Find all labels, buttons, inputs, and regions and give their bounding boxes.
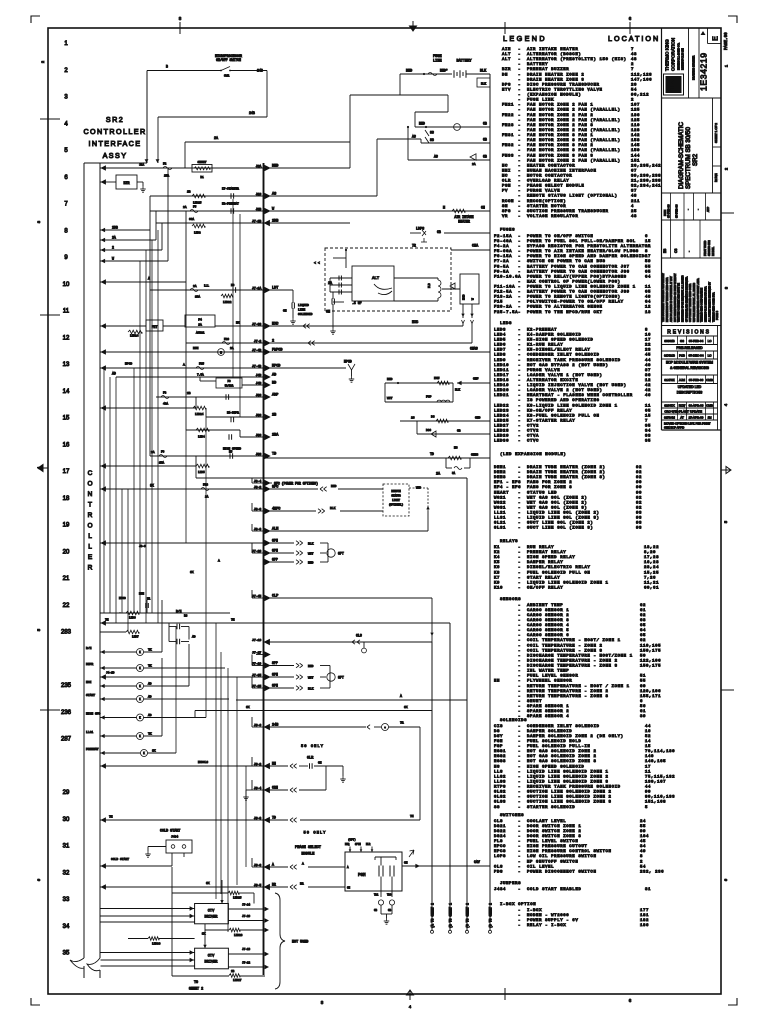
svg-text:60: 60 <box>640 685 646 689</box>
svg-text:90: 90 <box>636 486 642 490</box>
svg-text:-: - <box>518 629 520 633</box>
svg-text:LED7: LED7 <box>132 636 139 639</box>
svg-text:(D TO SHEET 2: (D TO SHEET 2 <box>489 903 493 928</box>
svg-text:LED5: LED5 <box>198 471 205 474</box>
svg-text:F25-7.5A: F25-7.5A <box>494 311 518 315</box>
svg-text:J8-8: J8-8 <box>254 527 262 531</box>
svg-text:NOT BE REPRODUCED OR USED WITH: NOT BE REPRODUCED OR USED WITHOUT <box>675 273 677 322</box>
svg-text:92: 92 <box>636 501 642 505</box>
svg-text:232, 236: 232, 236 <box>640 870 664 874</box>
svg-text:46: 46 <box>645 394 651 398</box>
svg-text:SHUNT: SHUNT <box>197 161 206 164</box>
svg-text:LED28: LED28 <box>494 430 509 434</box>
svg-text:-: - <box>518 53 520 57</box>
svg-text:M: M <box>443 207 445 211</box>
svg-text:B: B <box>166 65 168 69</box>
svg-text:CARGO SENSOR 4: CARGO SENSOR 4 <box>527 624 569 628</box>
svg-text:J7-48: J7-48 <box>252 364 261 368</box>
svg-text:13,22: 13,22 <box>644 546 659 550</box>
svg-text:-: - <box>518 369 520 373</box>
svg-text:-: - <box>518 586 520 590</box>
svg-text:15: 15 <box>645 240 651 244</box>
svg-text:LLS2: LLS2 <box>494 775 506 779</box>
svg-text:J7-35: J7-35 <box>252 673 261 677</box>
svg-text:MP SHUTOFF SWITCH: MP SHUTOFF SWITCH <box>527 860 578 864</box>
svg-text:43: 43 <box>631 53 637 57</box>
svg-text:-: - <box>518 665 520 669</box>
svg-text:HIGH PRESSURE CUTOUT: HIGH PRESSURE CUTOUT <box>527 845 587 849</box>
svg-text:-: - <box>518 860 520 864</box>
svg-text:(OPTIONAL): (OPTIONAL) <box>389 504 404 507</box>
svg-text:-: - <box>518 286 520 290</box>
svg-text:11: 11 <box>63 309 70 315</box>
svg-text:EXC: EXC <box>412 321 418 325</box>
svg-text:07-FEB-06: 07-FEB-06 <box>675 204 679 218</box>
svg-text:-: - <box>518 835 520 839</box>
svg-text:BLK: BLK <box>308 688 314 691</box>
svg-text:LED29: LED29 <box>494 435 509 439</box>
svg-text:PURGE VALVE: PURGE VALVE <box>527 369 560 373</box>
svg-text:2: 2 <box>631 99 634 103</box>
svg-text:F9-5A: F9-5A <box>494 270 509 274</box>
svg-text:FANS FOR ZONE 2: FANS FOR ZONE 2 <box>527 481 572 485</box>
svg-text:J7-45: J7-45 <box>252 594 261 598</box>
svg-text:D/E: D/E <box>176 609 182 613</box>
svg-text:FANS FOR ZONE 3: FANS FOR ZONE 3 <box>527 486 572 490</box>
svg-text:24B: 24B <box>249 111 255 115</box>
svg-text:65: 65 <box>645 270 651 274</box>
svg-text:FET: FET <box>152 325 158 329</box>
svg-text:44: 44 <box>645 359 651 363</box>
svg-text:-: - <box>518 68 520 72</box>
svg-text:-: - <box>518 924 520 928</box>
svg-text:11: 11 <box>645 770 651 774</box>
svg-text:-: - <box>518 644 520 648</box>
svg-text:-: - <box>518 501 520 505</box>
svg-text:CARGO SENSOR 1: CARGO SENSOR 1 <box>527 609 569 613</box>
svg-text:K1-RUN RELAY: K1-RUN RELAY <box>527 344 563 348</box>
svg-text:AMBIENT TEMP: AMBIENT TEMP <box>527 604 563 608</box>
svg-text:-: - <box>518 576 520 580</box>
svg-text:LLS: LLS <box>494 770 503 774</box>
svg-text:COLD START ENABLED: COLD START ENABLED <box>527 888 581 892</box>
svg-text:LIQUID INJECTION VALVE (NOT US: LIQUID INJECTION VALVE (NOT USED) <box>527 383 627 388</box>
svg-text:44: 44 <box>645 725 651 729</box>
svg-text:-: - <box>518 556 520 560</box>
svg-text:INFORMATION OF THERMO KING COR: INFORMATION OF THERMO KING CORP. <box>666 277 669 322</box>
svg-text:7E: 7E <box>410 815 414 818</box>
svg-text:SR2: SR2 <box>692 153 699 166</box>
svg-text:WET GAS SOL (ZONE 3): WET GAS SOL (ZONE 3) <box>527 505 587 510</box>
svg-text:283: 283 <box>61 630 72 636</box>
svg-text:LLS1: LLS1 <box>86 731 93 734</box>
svg-text:-: - <box>518 527 520 531</box>
svg-text:AND IS LOANED IN CONFIDENCE. I: AND IS LOANED IN CONFIDENCE. IT MAY <box>670 276 673 322</box>
svg-text:150: 150 <box>631 149 640 153</box>
svg-text:-: - <box>518 333 520 337</box>
svg-text:FUSE LINK: FUSE LINK <box>527 99 554 103</box>
svg-text:PRE-RELEASED: PRE-RELEASED <box>676 346 703 350</box>
svg-text:J6-3: J6-3 <box>254 863 262 867</box>
svg-text:A: A <box>272 863 274 867</box>
svg-text:59: 59 <box>645 260 651 264</box>
svg-text:-: - <box>518 349 520 353</box>
svg-text:LOPS: LOPS <box>494 855 506 859</box>
svg-text:FM32: FM32 <box>502 144 514 148</box>
svg-text:INL WATER TEMP: INL WATER TEMP <box>527 670 569 674</box>
svg-text:UNPUBLISHED WORK. ALL RIGHTS: UNPUBLISHED WORK. ALL RIGHTS <box>693 282 696 322</box>
svg-text:(A TO SHEET 2: (A TO SHEET 2 <box>431 903 435 928</box>
svg-text:F13-2A: F13-2A <box>494 296 512 300</box>
svg-text:AD: AD <box>112 372 116 376</box>
svg-text:2A: 2A <box>472 163 476 166</box>
svg-text:LIQUID LINE SOL (ZONE 3): LIQUID LINE SOL (ZONE 3) <box>527 516 600 521</box>
svg-text:122,106: 122,106 <box>640 659 661 663</box>
svg-text:LIQUID: LIQUID <box>298 304 309 307</box>
svg-text:CARGO SENSOR 5: CARGO SENSOR 5 <box>527 629 569 633</box>
svg-text:CONTROLLER: CONTROLLER <box>83 127 146 136</box>
svg-text:FAN MOTOR ZONE 3 FAN 1: FAN MOTOR ZONE 3 FAN 1 <box>527 134 593 138</box>
svg-text:211: 211 <box>631 200 640 204</box>
svg-text:J6-6: J6-6 <box>254 723 262 727</box>
svg-text:48: 48 <box>631 58 637 62</box>
svg-text:LED17: LED17 <box>494 374 509 378</box>
svg-text:-: - <box>518 685 520 689</box>
svg-text:LOADER VALVE 1 (NOT USED): LOADER VALVE 1 (NOT USED) <box>527 373 603 378</box>
svg-text:144: 144 <box>631 154 640 158</box>
svg-text:29: 29 <box>63 790 70 796</box>
svg-text:30: 30 <box>63 817 70 823</box>
svg-text:COIL TEMPERATURE - ZONE: COIL TEMPERATURE - ZONE 3 <box>527 649 603 653</box>
svg-text:< <: < < <box>314 261 320 265</box>
svg-text:RESERVED UNDER COPYRIGHT LAWS.: RESERVED UNDER COPYRIGHT LAWS. <box>697 278 700 322</box>
svg-text:63: 63 <box>640 619 646 623</box>
svg-text:ALT: ALT <box>372 277 380 281</box>
svg-text:OPT: OPT <box>338 552 344 556</box>
svg-text:CH: CH <box>283 310 287 313</box>
svg-text:61: 61 <box>640 710 646 714</box>
svg-text:RED: RED <box>419 122 425 126</box>
svg-text:A: A <box>183 364 185 367</box>
svg-text:HMI: HMI <box>502 169 511 173</box>
svg-text:(LED EXPANSION MODULE): (LED EXPANSION MODULE) <box>500 452 566 457</box>
svg-text:CH: CH <box>318 762 322 765</box>
svg-text:OLS: OLS <box>494 865 503 869</box>
svg-text:POWER TO ON/OFF SWITCH: POWER TO ON/OFF SWITCH <box>527 234 593 239</box>
svg-text:SUCT LINE SOL (ZONE 2): SUCT LINE SOL (ZONE 2) <box>527 521 593 526</box>
svg-text:F25: F25 <box>199 363 204 366</box>
svg-text:J7-2: J7-2 <box>254 339 262 343</box>
svg-text:BZR: BZR <box>502 68 511 72</box>
svg-text:HIGH SPD: HIGH SPD <box>86 713 101 716</box>
svg-text:WG22: WG22 <box>494 501 506 505</box>
svg-text:FORM 8: FORM 8 <box>716 310 719 320</box>
svg-text:FAN MOTOR ZONE 3 FAN (PARAL: FAN MOTOR ZONE 3 FAN (PARALLEL) <box>527 148 621 153</box>
svg-text:STARTER SOLENOID: STARTER SOLENOID <box>527 806 575 810</box>
svg-text:TB1: TB1 <box>374 894 379 897</box>
svg-text:ON/OFF SWITCH: ON/OFF SWITCH <box>216 58 241 62</box>
svg-text:-: - <box>518 419 520 423</box>
svg-text:PV: PV <box>502 190 508 194</box>
svg-text:ES: ES <box>663 249 667 253</box>
svg-text:POWER TO RELAY(UPPER POS)BYPAS: POWER TO RELAY(UPPER POS)BYPASSES <box>527 274 627 279</box>
svg-text:125: 125 <box>631 119 640 123</box>
svg-text:92: 92 <box>636 506 642 510</box>
svg-text:COLD START: COLD START <box>111 858 129 861</box>
svg-text:AS: AS <box>412 135 416 139</box>
svg-text:40: 40 <box>645 364 651 368</box>
svg-text:E: E <box>713 36 720 41</box>
svg-text:LED25: LED25 <box>494 419 509 423</box>
svg-text:35: 35 <box>645 440 651 444</box>
svg-text:MODEL: MODEL <box>711 246 715 256</box>
svg-text:90: 90 <box>636 491 642 495</box>
svg-text:-: - <box>518 83 520 87</box>
svg-text:80,116,133: 80,116,133 <box>645 796 675 800</box>
svg-text:J2B: J2B <box>256 207 262 211</box>
svg-text:SHEET 1 OF 2: SHEET 1 OF 2 <box>714 123 718 143</box>
svg-text:J2A: J2A <box>256 164 262 168</box>
svg-text:DRIVER: DRIVER <box>205 961 219 965</box>
svg-text:RETURN TEMPERATURE - ZO: RETURN TEMPERATURE - ZONE 2 <box>527 690 609 694</box>
svg-text:33734M: 33734M <box>664 416 675 420</box>
svg-text:J7-33: J7-33 <box>252 322 261 326</box>
svg-text:177: 177 <box>640 909 649 913</box>
svg-text:CTV: CTV <box>208 910 215 914</box>
svg-text:TK: TK <box>669 81 676 89</box>
svg-text:-: - <box>518 175 520 179</box>
svg-text:-: - <box>518 210 520 214</box>
svg-text:75,115,132: 75,115,132 <box>645 775 675 779</box>
svg-text:POWER TO HIGH SPEED AND DAMPER: POWER TO HIGH SPEED AND DAMPER SOLENOIDS <box>527 255 648 259</box>
svg-text:RUN: RUN <box>193 347 199 350</box>
svg-text:F6-15A: F6-15A <box>494 255 512 259</box>
svg-text:37: 37 <box>645 369 651 373</box>
svg-text:AIH: AIH <box>502 48 511 52</box>
svg-text:DISCHARGE TEMPERATURE - Z: DISCHARGE TEMPERATURE - ZONE 2 <box>527 659 618 663</box>
svg-text:32007X: 32007X <box>664 404 674 408</box>
svg-text:-: - <box>518 909 520 913</box>
svg-text:8: 8 <box>640 855 643 859</box>
svg-text:I-BOX: I-BOX <box>527 909 542 913</box>
svg-text:55: 55 <box>640 680 646 684</box>
svg-text:DIESEL/ELECTRIC RELAY: DIESEL/ELECTRIC RELAY <box>527 565 590 570</box>
svg-text:RLW: RLW <box>679 404 686 408</box>
svg-text:90: 90 <box>636 481 642 485</box>
svg-text:-: - <box>518 124 520 128</box>
svg-text:-: - <box>518 825 520 829</box>
svg-text:CRH: CRH <box>272 786 278 790</box>
svg-text:8FC (POWER FOR OPTIONS): 8FC (POWER FOR OPTIONS) <box>274 482 318 486</box>
svg-text:11,21: 11,21 <box>644 581 659 585</box>
svg-text:LED23: LED23 <box>494 409 509 413</box>
svg-text:MS: MS <box>454 447 458 450</box>
svg-text:LIQUID LINE SOLENOID ZONE 1: LIQUID LINE SOLENOID ZONE 1 <box>527 581 609 585</box>
svg-text:15A: 15A <box>159 462 164 465</box>
svg-text:LINE: LINE <box>298 309 305 312</box>
svg-text:NLR: NLR <box>366 843 371 846</box>
svg-text:BATTERY POWER TO CAN CONNECTOR: BATTERY POWER TO CAN CONNECTOR J39 <box>527 291 630 295</box>
svg-text:-: - <box>518 99 520 103</box>
svg-text:J6-5: J6-5 <box>254 883 262 887</box>
svg-text:K2-PREHEAT: K2-PREHEAT <box>222 203 239 206</box>
svg-text:SEE ECP APPD: SEE ECP APPD <box>664 426 684 430</box>
svg-text:-: - <box>518 364 520 368</box>
svg-text:SW1: SW1 <box>224 75 230 78</box>
svg-text:2A: 2A <box>112 236 116 240</box>
svg-text:J8S: J8S <box>256 433 262 437</box>
svg-text:.5 uF: .5 uF <box>352 301 362 305</box>
svg-text:-: - <box>518 154 520 158</box>
svg-text:LIQUID LINE SOL (ZONE 2): LIQUID LINE SOL (ZONE 2) <box>527 511 600 516</box>
svg-text:287: 287 <box>61 737 72 743</box>
svg-text:START RELAY: START RELAY <box>527 576 560 580</box>
svg-text:J7-24: J7-24 <box>242 903 250 906</box>
svg-text:-: - <box>518 745 520 749</box>
svg-text:96,212: 96,212 <box>631 94 649 98</box>
svg-text:5A: 5A <box>452 472 456 475</box>
svg-text:CTV2: CTV2 <box>527 425 539 429</box>
svg-text:AD: AD <box>148 696 152 699</box>
svg-text:CB: CB <box>457 430 461 433</box>
svg-text:-: - <box>518 399 520 403</box>
svg-text:LOCATION: LOCATION <box>608 34 660 43</box>
svg-text:DISCHARGE TEMPERATURE - Z: DISCHARGE TEMPERATURE - ZONE 3 <box>527 665 618 669</box>
svg-text:J7-19: J7-19 <box>252 662 261 666</box>
svg-text:LED18: LED18 <box>494 379 509 383</box>
svg-text:BLK: BLK <box>455 389 460 392</box>
svg-text:SUCTION PRESSURE TRANSDUCER: SUCTION PRESSURE TRANSDUCER <box>527 210 609 214</box>
svg-text:-: - <box>518 659 520 663</box>
svg-text:-: - <box>518 134 520 138</box>
svg-text:LED7: LED7 <box>494 349 506 353</box>
svg-text:151,168: 151,168 <box>645 801 666 805</box>
svg-text:50: 50 <box>640 654 646 658</box>
svg-text:THERMO KING CORP. USA: THERMO KING CORP. USA <box>712 292 715 322</box>
svg-text:CMHS: CMHS <box>471 454 478 457</box>
svg-text:J8S: J8S <box>256 393 262 397</box>
svg-text:8X: 8X <box>206 882 210 885</box>
svg-text:J7-16: J7-16 <box>252 638 261 642</box>
svg-text:J434: J434 <box>494 888 506 892</box>
svg-text:CB: CB <box>483 138 487 142</box>
svg-text:DAMPER SOLENOID: DAMPER SOLENOID <box>527 730 572 734</box>
svg-text:93: 93 <box>636 527 642 531</box>
svg-text:STARTER MOTOR: STARTER MOTOR <box>527 205 566 209</box>
svg-text:-: - <box>518 865 520 869</box>
svg-text:PDS: PDS <box>494 870 503 874</box>
svg-text:ALTERNATOR EXCITE: ALTERNATOR EXCITE <box>527 379 578 383</box>
svg-text:LED19: LED19 <box>494 384 509 388</box>
svg-text:05-DEC-04: 05-DEC-04 <box>688 354 703 358</box>
svg-text:K1: K1 <box>494 546 500 550</box>
svg-text:R: R <box>88 565 93 572</box>
svg-text:16: 16 <box>63 442 70 448</box>
svg-text:REQ: REQ <box>345 843 350 846</box>
svg-text:CHA: CHA <box>472 245 479 249</box>
svg-text:J4S: J4S <box>256 381 262 385</box>
svg-text:-: - <box>518 755 520 759</box>
svg-text:11: 11 <box>645 404 651 408</box>
svg-text:-: - <box>518 195 520 199</box>
svg-text:DMPR: DMPR <box>86 663 93 666</box>
svg-text:FM23: FM23 <box>502 124 514 128</box>
svg-text:HOT GAS SOLENOID ZONE 2: HOT GAS SOLENOID ZONE 2 <box>527 755 596 759</box>
svg-text:J7-27: J7-27 <box>252 651 261 655</box>
svg-text:CH: CH <box>326 311 330 315</box>
svg-text:-: - <box>518 379 520 383</box>
svg-text:7,26: 7,26 <box>644 576 656 580</box>
svg-text:OVERLOAD RELAY: OVERLOAD RELAY <box>527 180 569 184</box>
svg-text:61: 61 <box>640 609 646 613</box>
svg-text:RELAYS: RELAYS <box>500 540 518 544</box>
svg-text:ECP MODULE WIRE SYSTEM: ECP MODULE WIRE SYSTEM <box>666 361 713 365</box>
svg-text:MINNEAPOLIS MINNESOTA USA: MINNEAPOLIS MINNESOTA USA <box>705 286 708 322</box>
svg-text:LED28: LED28 <box>234 934 243 937</box>
svg-text:DESCRIPTIONS: DESCRIPTIONS <box>677 390 703 394</box>
svg-text:J7-29: J7-29 <box>242 915 250 918</box>
svg-text:POLYSWITCH-POWER TO ON/OFF REL: POLYSWITCH-POWER TO ON/OFF RELAY <box>527 300 624 305</box>
svg-text:34: 34 <box>640 845 646 849</box>
svg-text:SM: SM <box>502 205 508 209</box>
svg-text:-: - <box>518 840 520 844</box>
svg-text:CB: CB <box>483 155 487 159</box>
svg-text:110,105: 110,105 <box>640 644 661 648</box>
svg-text:JUMPERS: JUMPERS <box>500 882 521 886</box>
svg-text:-: - <box>518 725 520 729</box>
svg-text:-: - <box>518 384 520 388</box>
svg-text:K8-FUEL SOLENOID PULL ON: K8-FUEL SOLENOID PULL ON <box>527 414 600 418</box>
svg-text:WG31: WG31 <box>494 506 506 510</box>
svg-text:FAN MOTOR ZONE 2 FAN (PARAL: FAN MOTOR ZONE 2 FAN (PARALLEL) <box>527 118 621 123</box>
svg-text:OLR: OLR <box>502 180 511 184</box>
svg-text:WET GAS SOL (ZONE 2): WET GAS SOL (ZONE 2) <box>527 495 587 500</box>
svg-text:RTPS: RTPS <box>494 786 506 790</box>
svg-text:6: 6 <box>645 235 648 239</box>
svg-text:-: - <box>686 209 690 210</box>
svg-text:CMB: CMB <box>706 404 713 408</box>
svg-text:18: 18 <box>63 496 70 502</box>
svg-text:HOT GAS SOLENOID ZONE 2: HOT GAS SOLENOID ZONE 2 <box>527 750 596 754</box>
svg-text:128: 128 <box>631 129 640 133</box>
svg-text:RED: RED <box>387 378 393 381</box>
svg-text:DISC PRESSURE TRANSDUCER: DISC PRESSURE TRANSDUCER <box>527 83 600 87</box>
svg-text:CTV2: CTV2 <box>527 430 539 434</box>
svg-text:FAN MOTOR ZONE 3 FAN 3: FAN MOTOR ZONE 3 FAN 3 <box>527 154 593 158</box>
svg-text:POWER TO ALTERNATOR SENSE: POWER TO ALTERNATOR SENSE <box>527 306 603 310</box>
svg-text:F4-2A: F4-2A <box>494 245 509 249</box>
svg-text:CHAS: CHAS <box>470 347 478 351</box>
svg-text:92: 92 <box>636 466 642 470</box>
svg-text:FAN MOTOR ZONE 2 FAN 1: FAN MOTOR ZONE 2 FAN 1 <box>527 104 593 108</box>
svg-text:2A: 2A <box>198 324 202 327</box>
svg-text:ALTERNATOR (PRESTOLITE) 150 (N: ALTERNATOR (PRESTOLITE) 150 (NIS) <box>527 57 627 62</box>
svg-text:F20-2A: F20-2A <box>494 306 512 310</box>
svg-text:16: 16 <box>645 730 651 734</box>
svg-text:FXU: FXU <box>434 377 440 380</box>
svg-text:AD: AD <box>272 374 276 378</box>
svg-text:LED27: LED27 <box>233 979 242 982</box>
svg-text:LED14: LED14 <box>130 335 139 338</box>
svg-text:99: 99 <box>640 830 646 834</box>
svg-text:-: - <box>518 491 520 495</box>
svg-text:F2-15A: F2-15A <box>494 235 512 239</box>
svg-text:NONE: NONE <box>714 173 718 182</box>
svg-text:FAN MOTOR ZONE 2 FAN 2: FAN MOTOR ZONE 2 FAN 2 <box>527 114 593 118</box>
svg-text:SHUNT: SHUNT <box>527 700 542 704</box>
svg-text:55: 55 <box>645 265 651 269</box>
svg-text:K6: K6 <box>494 566 500 570</box>
